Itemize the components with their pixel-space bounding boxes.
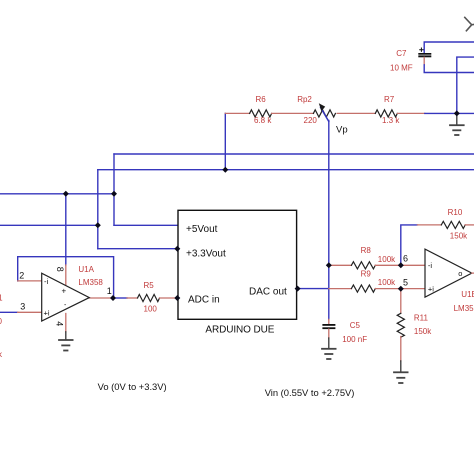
svg-text:R5: R5	[144, 281, 155, 290]
svg-text:o: o	[458, 269, 462, 278]
svg-text:-i: -i	[428, 261, 432, 270]
svg-text:C7: C7	[396, 49, 407, 58]
svg-text:+3.3Vout: +3.3Vout	[186, 248, 226, 259]
ground U1A pin 4	[59, 332, 73, 351]
wire stub into R5	[127, 297, 138, 299]
wire stub into R10	[417, 224, 441, 226]
svg-text:LM358: LM358	[454, 304, 474, 313]
svg-text:220: 220	[304, 116, 318, 125]
svg-text:1.3 k: 1.3 k	[382, 116, 400, 125]
svg-text:R10: R10	[448, 208, 463, 217]
ground R11	[394, 361, 408, 383]
svg-text:R7: R7	[384, 95, 395, 104]
svg-text:100: 100	[144, 305, 158, 314]
wire U1A pin 3 stub	[18, 311, 42, 313]
svg-text:10 MF: 10 MF	[390, 64, 413, 73]
svg-text:DAC out: DAC out	[249, 287, 287, 298]
ground C5	[322, 338, 336, 359]
wire ground junction to right edge	[425, 112, 474, 114]
svg-text:6: 6	[403, 254, 408, 264]
resistor R6	[250, 95, 273, 125]
wire Vp wiper vertical	[328, 121, 330, 320]
svg-text:C5: C5	[350, 321, 361, 330]
wire +3.3V net stub from left edge	[0, 224, 98, 226]
svg-text:Vin (0.55V to +2.75V): Vin (0.55V to +2.75V)	[265, 387, 355, 398]
svg-text:100k: 100k	[378, 278, 396, 287]
wire U1A feedback loop	[18, 257, 114, 298]
junction R7 ground node	[454, 110, 460, 116]
wire node to R5	[113, 297, 127, 299]
svg-text:R11: R11	[414, 314, 429, 323]
wire R10 to right edge	[465, 224, 474, 226]
op-amp U1A	[42, 265, 104, 321]
wire U1A pin 2 stub	[18, 280, 42, 282]
wire U1A pin 4 stub	[65, 314, 67, 332]
wire right mid branch to ground junction	[457, 57, 474, 113]
wire +5V net stub from left edge	[0, 193, 114, 195]
svg-text:Rp2: Rp2	[297, 95, 312, 104]
junction ADC in pin	[174, 295, 180, 301]
Arduino DUE block	[178, 210, 297, 335]
svg-text:1: 1	[107, 286, 112, 296]
capacitor C5	[322, 319, 367, 344]
potentiometer Rp2	[297, 95, 335, 125]
wire R6 feed vertical from +3.3V rail	[224, 113, 226, 169]
wire pin5 node down to R11	[400, 289, 402, 314]
partial X mark top right	[465, 17, 474, 30]
wire U1B output to right edge	[472, 272, 474, 274]
svg-text:+: +	[62, 287, 67, 296]
svg-text:5: 5	[403, 278, 408, 288]
svg-text:150k: 150k	[450, 232, 468, 241]
junction pin8 supply on +5V stub	[63, 191, 69, 197]
junction U1B pin 6 node	[398, 262, 404, 268]
junction U1B pin 5 node	[398, 286, 404, 292]
svg-text:Vp: Vp	[336, 125, 348, 136]
junction R6 feed on +3.3V rail	[222, 167, 228, 173]
svg-text:U1B: U1B	[461, 290, 474, 299]
svg-text:+5Vout: +5Vout	[186, 224, 218, 235]
svg-text:+i: +i	[428, 285, 434, 294]
svg-text:R9: R9	[361, 270, 372, 279]
wire DAC out to R9	[298, 288, 329, 290]
wire R9 to U1B pin 5	[375, 288, 425, 290]
wire U1A pin 3 from left edge	[0, 311, 18, 313]
resistor R10	[441, 208, 468, 241]
op-amp U1B	[425, 249, 474, 313]
wire R11 to ground	[400, 337, 402, 361]
svg-text:100 nF: 100 nF	[342, 335, 367, 344]
junction +5V rail corner node	[111, 191, 117, 197]
svg-text:100k: 100k	[378, 255, 396, 264]
svg-text:150k: 150k	[414, 327, 432, 336]
resistor R8	[351, 246, 396, 269]
svg-text:8: 8	[55, 267, 65, 272]
ground top-right	[450, 116, 464, 135]
wire +3.3V net vertical drop	[97, 170, 99, 249]
resistor R7	[375, 95, 400, 125]
resistor R9	[351, 270, 396, 293]
wire from R6-feed corner to R6	[225, 112, 249, 114]
wire +3.3V net horizontal rail	[98, 169, 474, 171]
wire +5V net horizontal rail	[114, 153, 474, 155]
wire R5 to ADC in pin	[160, 297, 178, 299]
svg-text:4: 4	[55, 321, 65, 326]
wire R8 to U1B pin 6	[375, 264, 425, 266]
capacitor C7	[390, 42, 474, 73]
svg-text:+i: +i	[44, 309, 50, 318]
wire U1A output to node	[89, 297, 113, 299]
wire stub into R9	[329, 288, 352, 290]
svg-text:R6: R6	[256, 95, 267, 104]
resistor R11	[397, 313, 432, 337]
wire +3.3V net to +3.3Vout pin	[98, 248, 178, 250]
svg-text:-i: -i	[44, 277, 48, 286]
wire U1A pin 8 supply vertical	[65, 194, 67, 265]
junction Vp wiper to R8	[326, 262, 332, 268]
wire U1A pin 8 stub	[65, 265, 67, 285]
wire Rp2 to R7	[337, 112, 375, 114]
wire R6 to Rp2	[272, 112, 314, 114]
junction U1A output node	[110, 295, 116, 301]
junction +3.3Vout pin	[174, 246, 180, 252]
svg-text:6.8 k: 6.8 k	[254, 116, 272, 125]
svg-text:R8: R8	[361, 246, 372, 255]
svg-text:Vo (0V to +3.3V): Vo (0V to +3.3V)	[98, 381, 167, 392]
wire +5V net to +5Vout pin	[114, 224, 177, 226]
wire Vp node to R8	[329, 264, 352, 266]
svg-text:2: 2	[19, 271, 24, 281]
svg-text:U1A: U1A	[78, 265, 94, 274]
resistor R5	[138, 281, 160, 314]
junction +3.3V rail stub node	[95, 222, 101, 228]
junction DAC out pin	[295, 286, 301, 292]
svg-text:ADC in: ADC in	[188, 295, 220, 306]
svg-text:LM358: LM358	[78, 278, 103, 287]
wire R10 feedback riser	[401, 225, 418, 265]
svg-text:ARDUINO DUE: ARDUINO DUE	[205, 325, 274, 336]
svg-text:3: 3	[20, 302, 25, 312]
wire R7 to ground junction	[397, 112, 424, 114]
wire +5V net vertical drop	[113, 154, 115, 225]
